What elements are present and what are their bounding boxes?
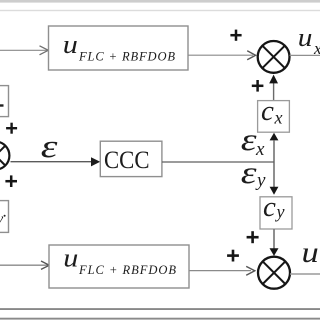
wire block to top junction <box>188 51 255 60</box>
block cx <box>258 95 290 132</box>
node label epsilon-x <box>241 122 265 160</box>
summing junction (left, partially cropped) <box>0 142 9 170</box>
svg-text:c: c <box>261 95 274 127</box>
node label ux <box>298 24 320 58</box>
plus sign (top junction bottom input) <box>252 80 264 92</box>
summing junction (x-axis) <box>258 41 290 73</box>
svg-text:u: u <box>63 31 78 60</box>
plus sign (left junction bottom input) <box>5 175 17 187</box>
svg-text:x: x <box>274 108 283 128</box>
svg-text:FLC + RBFDOB: FLC + RBFDOB <box>78 263 176 277</box>
wire junction node to cx <box>270 133 279 162</box>
block uFLC+RBFDOB (y-axis) <box>49 244 189 288</box>
plus sign (left junction top input) <box>6 123 17 134</box>
block reference input (cropped, top-left) <box>0 86 9 117</box>
svg-text:y: y <box>255 170 266 191</box>
block uFLC+RBFDOB (x-axis) <box>49 26 189 70</box>
wire ux output <box>290 54 320 56</box>
svg-text:c: c <box>263 191 276 223</box>
wire into y-axis controller block <box>0 261 49 269</box>
plus sign (bottom junction left input) <box>227 250 239 262</box>
node label epsilon-y <box>241 155 266 191</box>
summing junction (y-axis) <box>258 257 290 289</box>
plus sign (bottom junction top input) <box>247 231 259 243</box>
block cy <box>260 191 292 229</box>
svg-text:v: v <box>0 211 4 227</box>
svg-text:u: u <box>302 235 319 268</box>
svg-text:FLC + RBFDOB: FLC + RBFDOB <box>78 50 175 64</box>
svg-text:y: y <box>275 202 285 222</box>
svg-text:u: u <box>298 24 313 53</box>
wire cx to top junction <box>269 75 278 101</box>
block feedback input (cropped, bottom-left) <box>0 201 9 233</box>
svg-text:ε: ε <box>41 128 58 165</box>
wire cy to bottom junction <box>270 229 279 256</box>
svg-text:u: u <box>63 244 78 273</box>
svg-text:ε: ε <box>241 155 258 190</box>
wire block to bottom junction <box>189 266 255 275</box>
svg-text:CCC: CCC <box>104 147 150 174</box>
wire uy output <box>290 273 320 275</box>
plus sign (top junction left input) <box>230 30 241 41</box>
wire CCC to junction node <box>162 161 274 163</box>
wire into x-axis controller block <box>0 46 48 55</box>
wire left junction to CCC <box>11 157 101 166</box>
svg-text:ε: ε <box>241 122 258 157</box>
wire junction node to cy <box>270 162 279 195</box>
svg-text:x: x <box>313 39 320 58</box>
block CCC <box>100 141 162 176</box>
